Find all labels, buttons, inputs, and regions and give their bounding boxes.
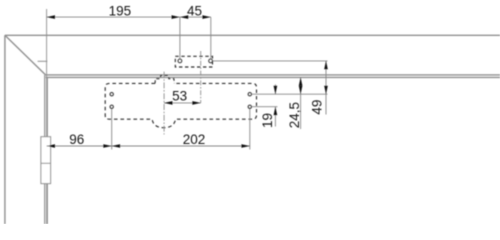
door hinge-side edge line 2 [46, 77, 48, 224]
dim 96/202 shared bowtie arrows [103, 144, 120, 148]
dim 202 right arrow [241, 144, 249, 148]
closer body top notch [155, 75, 174, 83]
body screw hole top-left [110, 93, 113, 96]
dim 49 top arrow [324, 61, 328, 69]
svg-text:96: 96 [69, 132, 84, 147]
dim 53 left arrow [164, 101, 172, 105]
dim 19 line lower stub [274, 107, 276, 127]
top dimension line [47, 16, 211, 18]
bottom dimension line [47, 145, 250, 147]
arm plate hole right [209, 59, 213, 63]
hinge knuckle division [41, 162, 51, 164]
svg-text:19: 19 [260, 113, 275, 128]
dim 96 left arrow [47, 144, 55, 148]
extension line plate hole right (to top dim) [210, 17, 212, 59]
dim 24,5 top arrow [299, 77, 303, 85]
extension line lower hole row to right (19 ref) [252, 106, 278, 108]
extension line body hole bottom-right (to bottom dim) [249, 109, 251, 150]
dim 24,5 line [300, 77, 302, 129]
door hinge-side edge line 1 [44, 75, 46, 224]
closer body dashed outline [105, 83, 256, 127]
svg-text:195: 195 [109, 3, 132, 18]
door top edge lower line [46, 76, 500, 78]
dim 45 right arrow [202, 15, 210, 19]
arm plate hole left [178, 59, 182, 63]
pinion centerline [163, 72, 165, 135]
extension line plate hole row to right (49 ref) [213, 60, 328, 62]
dim 49 line [325, 61, 327, 115]
door top edge upper line [46, 74, 500, 76]
body screw hole bottom-left [110, 105, 113, 108]
frame bottom edge (soffit line, full width) [5, 34, 500, 36]
dim 53 line [164, 102, 201, 104]
hinge axis tick at arm-hole height [38, 60, 48, 62]
extension line body hole bottom-left (to bottom dim) [111, 109, 113, 150]
dim 195/45 shared bowtie arrows [172, 15, 189, 19]
body screw hole bottom-right [248, 105, 251, 108]
dim 195 left arrow [47, 15, 55, 19]
frame miter diagonal [5, 35, 46, 75]
svg-text:53: 53 [172, 88, 187, 103]
dim 19 bottom arrow (outside, pointing up) [274, 107, 278, 115]
svg-text:45: 45 [187, 3, 202, 18]
extension line upper hole row to right (24,5 / 49 ref) [252, 93, 328, 95]
dim 19 line upper stub [274, 84, 276, 94]
dim 19 top arrow (outside, pointing down) [274, 86, 278, 94]
dim 53 right arrow [192, 101, 200, 105]
arm fixing plate dashed outline [175, 56, 212, 67]
hinge barrel [41, 137, 51, 184]
dim 24,5 bottom arrow [299, 86, 303, 94]
hinge axis centerline [46, 9, 48, 224]
svg-text:24,5: 24,5 [287, 102, 302, 128]
frame left outer edge [4, 35, 6, 224]
svg-text:202: 202 [183, 132, 206, 147]
svg-text:49: 49 [310, 100, 325, 115]
body screw hole top-right [248, 93, 251, 96]
arm plate centerline [200, 51, 202, 103]
dim 49 bottom arrow [324, 86, 328, 94]
extension line plate hole left (to top dim) [179, 17, 181, 59]
